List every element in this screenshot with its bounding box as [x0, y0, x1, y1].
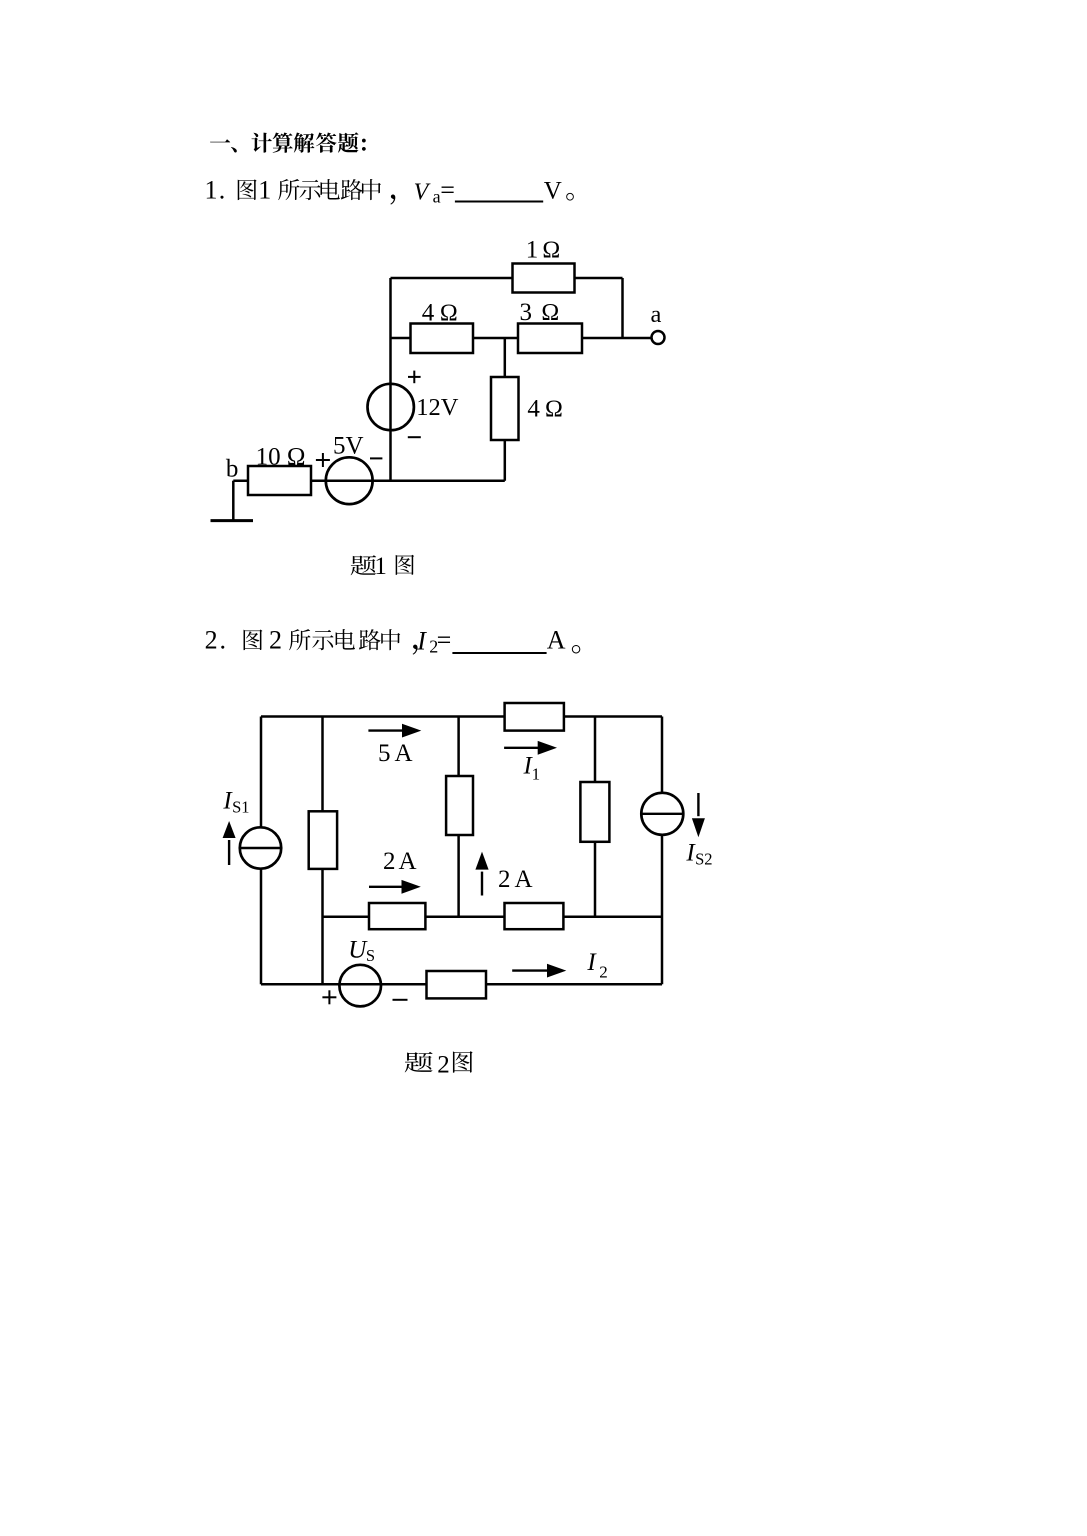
svg-text:.: . — [219, 175, 226, 204]
svg-text:A: A — [395, 740, 413, 767]
svg-text:S1: S1 — [232, 797, 249, 816]
svg-text:1: 1 — [526, 237, 539, 264]
svg-text:2: 2 — [498, 866, 511, 893]
svg-text:a: a — [651, 301, 662, 328]
svg-text:5V: 5V — [333, 433, 364, 460]
svg-text:1: 1 — [205, 175, 218, 204]
svg-text:=: = — [437, 625, 452, 654]
svg-text:Ω: Ω — [545, 397, 563, 423]
svg-text:2: 2 — [383, 848, 396, 875]
svg-text:A: A — [399, 848, 417, 875]
svg-text:V: V — [414, 179, 431, 205]
svg-text:2: 2 — [205, 625, 218, 654]
svg-text:1: 1 — [258, 175, 271, 204]
svg-text:V: V — [544, 177, 562, 204]
svg-text:.: . — [220, 625, 227, 654]
svg-text:b: b — [226, 455, 239, 482]
svg-text:A: A — [515, 866, 533, 893]
svg-text:A: A — [547, 625, 566, 654]
svg-text:I: I — [416, 626, 427, 655]
svg-text:2: 2 — [437, 1051, 450, 1078]
svg-text:1: 1 — [532, 765, 541, 784]
svg-text:Ω: Ω — [541, 300, 559, 326]
svg-text:4: 4 — [527, 396, 540, 423]
svg-text:S: S — [366, 946, 375, 965]
svg-text:S2: S2 — [695, 849, 712, 868]
svg-text:4: 4 — [422, 300, 435, 327]
svg-text:12V: 12V — [416, 394, 459, 421]
svg-text:2: 2 — [269, 625, 282, 654]
svg-text:Ω: Ω — [440, 301, 458, 327]
svg-text:Ω: Ω — [542, 238, 560, 264]
svg-text:3: 3 — [520, 299, 533, 326]
svg-text:1: 1 — [374, 553, 387, 580]
svg-text:2: 2 — [599, 963, 608, 982]
svg-text:10 Ω: 10 Ω — [256, 444, 306, 471]
svg-text:=: = — [440, 175, 455, 204]
svg-text:5: 5 — [378, 740, 391, 767]
